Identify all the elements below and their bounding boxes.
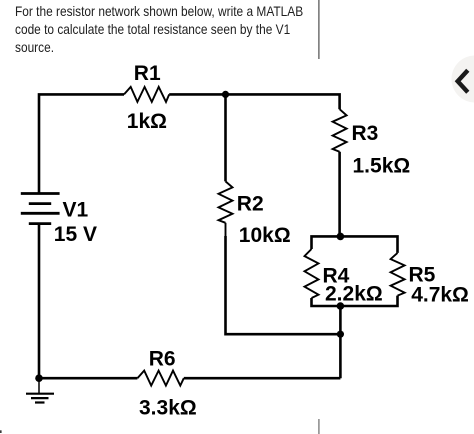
- svg-text:R1: R1: [134, 62, 161, 85]
- resistor R3: [333, 109, 347, 152]
- wire: node A to R3 top: [226, 94, 340, 109]
- wire: R6 to node E: [39, 377, 137, 380]
- wire: R1 to node A: [169, 93, 225, 96]
- divider line bottom: [318, 419, 320, 434]
- wire: node A down through R2 top lead: [224, 94, 227, 181]
- node D junction dot: [337, 331, 344, 338]
- wire: node C down to bottom-right corner: [339, 306, 342, 378]
- svg-text:10kΩ: 10kΩ: [239, 224, 291, 247]
- svg-text:V1: V1: [63, 198, 89, 221]
- wire: parallel box top rail: [312, 236, 398, 253]
- resistor R5: [391, 253, 405, 296]
- nav chevron button: [452, 56, 474, 103]
- wire: R2 zigzag tail: [225, 223, 227, 237]
- resistor R4: [305, 249, 319, 298]
- svg-text:R6: R6: [149, 348, 176, 371]
- node B junction dot: [337, 233, 345, 241]
- resistor R1: [124, 87, 169, 102]
- wire: R3 bottom to node B: [338, 152, 341, 237]
- svg-text:4.7kΩ: 4.7kΩ: [411, 283, 469, 306]
- wire: parallel box bottom rail: [312, 296, 398, 306]
- node A junction dot: [222, 91, 229, 98]
- resistor R6: [137, 371, 183, 386]
- svg-text:R3: R3: [352, 122, 379, 145]
- wire: bottom-right corner to R6: [184, 377, 341, 380]
- svg-text:R2: R2: [237, 192, 264, 215]
- svg-text:3.3kΩ: 3.3kΩ: [139, 396, 197, 419]
- corner mark bottom-left: [0, 430, 2, 433]
- divider line top: [318, 0, 320, 59]
- node E junction dot: [35, 374, 43, 382]
- wire: R2 bottom to node D: [226, 236, 341, 334]
- question text: [15, 2, 355, 56]
- svg-text:15 V: 15 V: [54, 223, 97, 246]
- battery V1: [21, 194, 60, 224]
- resistor R2: [219, 181, 233, 222]
- node C junction dot: [337, 302, 345, 310]
- ground: [26, 378, 54, 402]
- svg-text:1.5kΩ: 1.5kΩ: [353, 154, 411, 177]
- svg-text:2.2kΩ: 2.2kΩ: [325, 283, 383, 306]
- wire: V1 positive to R1 (left vertical + top-left horizontal): [39, 94, 124, 193]
- wire: V1 negative to node E: [38, 224, 41, 379]
- svg-text:1kΩ: 1kΩ: [127, 110, 167, 133]
